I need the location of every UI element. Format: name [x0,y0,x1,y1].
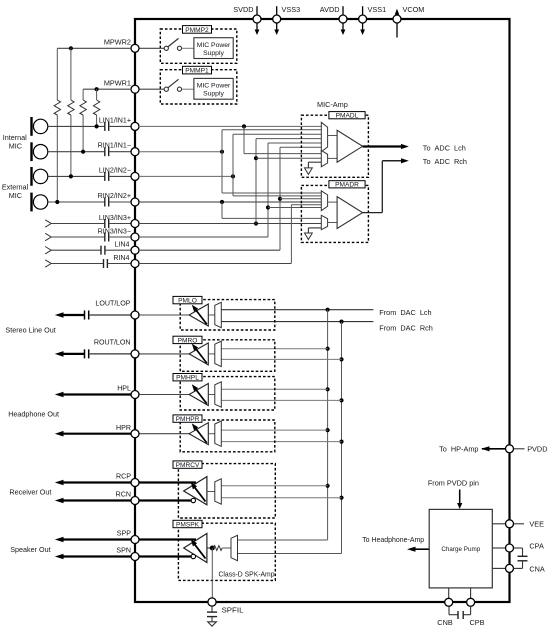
wire From PVDD pin arrow [428,479,479,509]
wire LIN4 external [51,249,100,251]
mux U1b PMADL minus-selector [321,150,337,166]
capacitor C-CNB-CPB [449,606,471,619]
wire ROUT to amp [139,353,189,355]
pin SPFIL [208,598,244,614]
svg-text:To ADC Rch: To ADC Rch [423,157,467,166]
block PMADR [301,181,368,243]
svg-text:PMMP1: PMMP1 [185,68,209,75]
svg-text:From PVDD pin: From PVDD pin [428,479,479,488]
pin RIN4 [113,254,139,268]
svg-text:RCP: RCP [116,473,131,481]
pin SPP [55,530,196,544]
op-amp PMADL [337,130,363,162]
wire HPR to amp [139,433,189,435]
wire DAC Lch vertical bus [238,310,330,540]
switch SW1 [139,88,164,90]
pin AVDD [320,5,347,35]
svg-text:PMADL: PMADL [336,113,359,120]
svg-text:To HP-Amp: To HP-Amp [439,445,478,454]
svg-text:LIN2/IN2−: LIN2/IN2− [99,166,131,174]
svg-text:RIN4: RIN4 [113,254,129,262]
pin MPWR1 [104,79,139,94]
svg-text:HPL: HPL [117,385,131,393]
block PMRO [139,336,275,371]
microphone MIC2 internal R [32,142,48,161]
svg-text:MIC-Amp: MIC-Amp [317,100,348,109]
wire DAC Rch vertical bus [238,322,344,554]
svg-text:PMHPL: PMHPL [176,375,199,382]
svg-text:SVDD: SVDD [233,5,253,14]
wire HPL to amp [139,394,189,396]
wire net LIN1 to PMADL [139,124,321,153]
pin VSS1 [359,5,387,35]
block PMSPK [173,520,275,598]
wire RIN3 external [51,236,104,238]
mux PMSPK [231,535,238,560]
svg-text:ROUT/LON: ROUT/LON [94,339,131,347]
svg-text:To ADC Lch: To ADC Lch [423,143,466,152]
box MIC Power Supply 2 [194,38,233,59]
pin CNA [492,564,545,573]
pin CNB [437,588,453,627]
svg-text:MIC: MIC [9,191,22,200]
svg-text:VCOM: VCOM [403,5,425,14]
pin LOUT/LOP [90,300,139,319]
wire net LIN3 [139,139,321,226]
svg-text:PVDD: PVDD [527,445,547,454]
wire To ADC Lch [363,143,466,152]
pin LIN4 [115,241,139,255]
block PMADL [301,112,368,178]
pin VCOM [393,5,424,38]
capacitor C-RIN2 [105,198,131,207]
wire net RIN3 [139,143,321,237]
mux U1a PMADL plus-selector [321,122,337,151]
resistor R-SPK [214,546,223,551]
wire MPWR1 net [83,87,131,100]
svg-text:AVDD: AVDD [320,5,340,14]
wire net RIN1 [139,130,321,193]
svg-text:MPWR1: MPWR1 [104,79,131,88]
op-amp PMHPR with gain arrow and mux [189,421,221,446]
block PMMP1 MIC Power Supply [139,66,237,104]
wire net RIN2 [139,200,321,219]
resistor R2 [68,100,74,115]
inverting output bubble PMSPK [191,554,195,558]
wire Stereo Line Out R arrow [55,351,85,357]
svg-text:SPP: SPP [117,530,131,538]
svg-text:PMRCV: PMRCV [176,462,200,469]
ground SPFIL [208,622,217,626]
wire PMRO mux inputs [222,349,342,360]
wire PMRCV mux inputs [221,486,342,498]
common node triangle PMADL [305,162,322,174]
svg-text:From DAC Rch: From DAC Rch [379,323,433,332]
svg-text:LIN3/IN3+: LIN3/IN3+ [99,214,131,222]
svg-text:MIC Power: MIC Power [197,42,231,49]
pin CPA [492,542,544,552]
svg-text:MPWR2: MPWR2 [104,38,131,47]
connector RIN4 input [45,260,51,267]
svg-text:MIC: MIC [9,141,22,150]
block PMHPL [139,374,275,411]
mux U2b PMADR minus-selector [321,215,337,229]
op-amp PMLO with gain arrow and mux [189,302,221,327]
op-amp PMRCV receiver [184,477,207,505]
wire From DAC Lch [222,308,432,317]
capacitor C-LOUT [85,311,89,320]
common node triangle PMADR [305,228,322,240]
svg-text:RCN: RCN [116,491,131,499]
microphone MIC3 external L [32,167,48,186]
svg-text:Supply: Supply [203,91,224,98]
wire RIN2 external [48,200,105,204]
svg-text:Receiver Out: Receiver Out [9,487,51,496]
svg-text:HPR: HPR [116,424,131,432]
op-amp PMHPL with gain arrow and mux [189,382,221,407]
svg-text:VSS1: VSS1 [368,5,387,14]
pin ROUT/LON [90,339,139,358]
pin HPR [55,424,139,438]
wire LIN1 external [48,124,105,128]
pin RIN2/IN2+ [98,192,139,206]
wire PMHPL mux inputs [222,389,342,400]
capacitor C-RIN4 [104,259,132,268]
svg-text:MIC Power: MIC Power [197,83,231,90]
op-amp PMRO with gain arrow and mux [189,341,221,366]
wire Stereo Line Out L arrow [55,312,85,318]
capacitor C-LIN1 [105,122,131,131]
block PMMP2 MIC Power Supply [139,26,237,64]
pin RIN1/IN1- [98,142,139,156]
pin MPWR2 [104,38,139,53]
wire SPFIL feedback vertical [211,548,213,598]
wire LIN2 external [48,174,105,178]
svg-text:SPFIL: SPFIL [222,605,244,614]
svg-text:LIN1/IN1+: LIN1/IN1+ [99,116,131,124]
op-amp PMADR [337,197,363,229]
wire To Headphone-Amp arrow [362,535,429,552]
capacitor C-SPFIL [207,606,217,622]
svg-text:PMSPK: PMSPK [176,522,200,529]
svg-text:LIN4: LIN4 [115,241,130,249]
chip boundary [135,19,510,602]
microphone MIC1 internal L [32,117,48,136]
wire LOUT to amp [139,314,189,316]
svg-text:Supply: Supply [203,50,224,57]
svg-text:To Headphone-Amp: To Headphone-Amp [362,535,424,544]
pin SVDD [233,5,261,35]
block PMLO [139,296,275,330]
wire RIN4 external [51,263,103,265]
pin RCP [55,473,196,487]
block PMHPR [139,415,275,452]
pin LIN3/IN3+ [99,214,139,228]
svg-text:Headphone Out: Headphone Out [8,409,59,418]
connector RIN3 input [45,233,51,240]
svg-text:PMRO: PMRO [178,337,198,344]
pin RIN3/IN3- [98,227,139,241]
svg-text:VEE: VEE [529,520,544,529]
block PMRCV [173,461,275,518]
op-amp PMSPK class-D [184,534,207,563]
wire net RIN4 [139,205,321,264]
wire net LIN4 [139,147,321,250]
wire net LIN2 [139,134,321,196]
svg-text:VSS3: VSS3 [282,5,301,14]
connector LIN3 input [45,220,51,227]
pin VEE [492,520,544,529]
svg-text:RIN3/IN3−: RIN3/IN3− [98,227,131,235]
capacitor C-LIN4 [101,246,131,255]
pin RCN [55,491,192,505]
svg-text:PMHPR: PMHPR [176,416,200,423]
svg-text:PMMP2: PMMP2 [185,27,209,34]
microphone MIC4 external R [32,193,48,212]
node SPK feedback [207,547,212,549]
svg-text:Charge Pump: Charge Pump [441,546,480,553]
svg-text:CPA: CPA [529,542,544,551]
svg-text:CNB: CNB [437,618,453,627]
mux U2a PMADR plus-selector [321,191,337,211]
wire MPWR2 net [57,46,131,100]
resistor R3 [80,100,86,115]
switch SW2 [139,47,164,49]
wire PMHPR mux inputs [222,430,342,442]
resistor R4 [93,100,99,115]
wire To ADC Rch [363,157,467,213]
pin HPL [55,385,139,399]
svg-text:CNA: CNA [529,564,545,573]
pin PVDD with To HP-Amp arrow [439,445,547,454]
box MIC Power Supply 1 [194,78,233,99]
wire From DAC Rch [222,320,433,333]
pin VSS3 [273,5,300,35]
svg-text:From DAC Lch: From DAC Lch [379,308,431,317]
mux PMRCV [207,491,215,493]
capacitor C-RIN3 [105,233,131,242]
pin SPN [55,547,192,561]
svg-text:PMADR: PMADR [335,182,359,189]
svg-text:SPN: SPN [116,547,131,555]
pin CPB [467,588,485,627]
svg-text:CPB: CPB [469,618,484,627]
resistor R1 [54,100,60,115]
capacitor C-LIN2 [105,172,131,181]
capacitor C-LIN3 [105,219,131,228]
inverting output bubble PMRCV [191,498,195,502]
capacitor C-CPA-CNA [514,548,528,568]
svg-text:Class-D SPK-Amp: Class-D SPK-Amp [219,570,275,579]
wire LIN3 external [51,223,104,225]
wire RIN1 external [48,150,105,154]
pin LIN2/IN2- [99,166,139,180]
svg-text:PMLO: PMLO [178,298,197,305]
svg-text:Stereo Line Out: Stereo Line Out [5,325,55,334]
box Charge Pump [429,509,492,588]
svg-text:RIN2/IN2+: RIN2/IN2+ [98,192,131,200]
svg-text:Speaker Out: Speaker Out [10,545,50,554]
svg-text:LOUT/LOP: LOUT/LOP [95,300,130,308]
capacitor C-ROUT [85,349,89,358]
svg-text:RIN1/IN1−: RIN1/IN1− [98,142,131,150]
pin LIN1/IN1+ [99,116,139,130]
capacitor C-RIN1 [105,147,131,156]
connector LIN4 input [45,247,51,254]
